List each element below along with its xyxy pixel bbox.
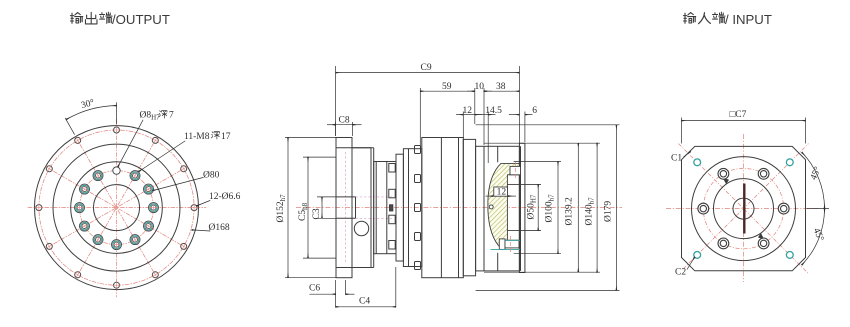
svg-text:12: 12 (497, 188, 507, 198)
svg-text:59: 59 (442, 82, 452, 92)
svg-text:C4: C4 (359, 297, 370, 307)
svg-text:Ø139.2: Ø139.2 (565, 197, 575, 225)
svg-text:Ø140h7: Ø140h7 (585, 197, 596, 226)
svg-text:□C7: □C7 (730, 110, 747, 120)
svg-text:/ INPUT: / INPUT (725, 12, 772, 27)
svg-text:C8: C8 (339, 116, 350, 126)
svg-text:11-M8: 11-M8 (184, 132, 210, 142)
svg-text:/OUTPUT: /OUTPUT (112, 12, 170, 27)
svg-text:Ø179: Ø179 (604, 201, 614, 222)
svg-text:38: 38 (496, 82, 506, 92)
svg-text:Ø8H7: Ø8H7 (140, 111, 161, 122)
svg-text:C6: C6 (309, 284, 320, 294)
svg-text:14.5: 14.5 (485, 106, 502, 116)
svg-text:C9: C9 (421, 63, 432, 73)
svg-text:17: 17 (221, 132, 231, 142)
svg-text:30°: 30° (80, 97, 96, 111)
svg-text:C3: C3 (312, 208, 322, 219)
svg-text:7: 7 (169, 111, 174, 121)
svg-text:Ø80: Ø80 (203, 171, 220, 181)
svg-text:12-Ø6.6: 12-Ø6.6 (209, 192, 241, 202)
svg-text:12: 12 (463, 106, 473, 116)
svg-text:C1: C1 (671, 154, 682, 164)
svg-text:Ø152h7: Ø152h7 (276, 194, 287, 223)
svg-text:Ø100h7: Ø100h7 (545, 194, 556, 223)
svg-text:10: 10 (475, 82, 485, 92)
svg-text:45°: 45° (811, 226, 826, 243)
svg-text:Ø50H7: Ø50H7 (527, 194, 538, 219)
svg-text:Ø168: Ø168 (209, 223, 230, 233)
svg-text:45°: 45° (808, 165, 823, 182)
svg-text:C2: C2 (675, 268, 686, 278)
svg-text:C5h8: C5h8 (298, 202, 309, 221)
svg-text:6: 6 (532, 106, 537, 116)
